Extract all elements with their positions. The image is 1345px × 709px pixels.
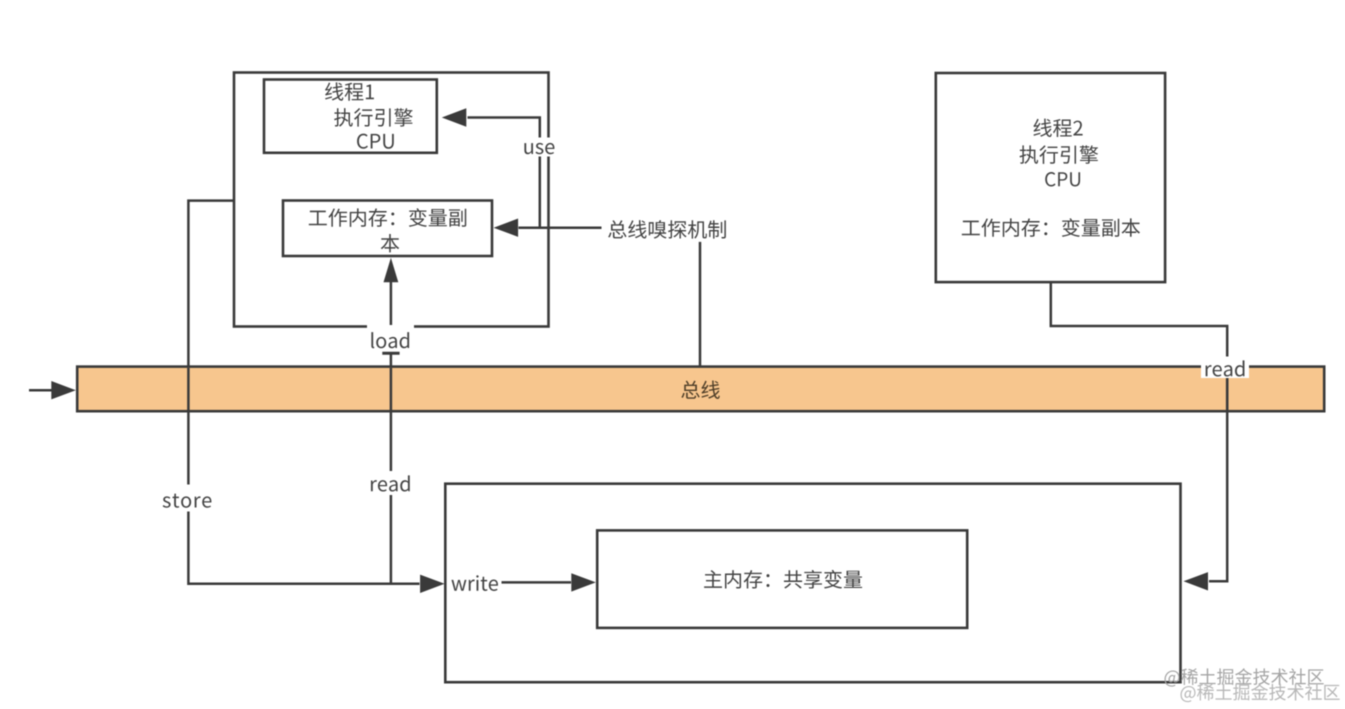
- white backing for label read right: [1201, 357, 1249, 379]
- box thread1 execution engine CPU: [264, 80, 437, 153]
- wire bus-sniffing vertical down to bus: [699, 242, 702, 367]
- wire store crossing bus: [188, 368, 1227, 410]
- bus bar (orange): [77, 367, 1324, 412]
- watermark line1: [1165, 668, 1324, 686]
- wire bus-sniffing horizontal into working memory box: [519, 226, 602, 229]
- bottom container box of main memory: [445, 484, 1180, 683]
- wire use: vertical then left into thread1 box: [468, 118, 540, 228]
- arrowhead load pointing up into working memory: [384, 258, 399, 283]
- label thread1 line3 CPU: [357, 134, 394, 149]
- box working memory (variable copy): [283, 201, 492, 257]
- label use: [524, 143, 554, 154]
- arrow into bus from left: [29, 389, 52, 392]
- arrowhead store/write into bottom box: [420, 575, 445, 593]
- label thread2 line2: [1020, 145, 1099, 164]
- wire read: thread2 down, right, down through bus, left into bottom box: [1051, 282, 1227, 581]
- wire load/read vertical through bus: [390, 281, 393, 584]
- label thread1 line1: [325, 82, 374, 100]
- label bus: [681, 381, 719, 399]
- label thread2 line3 CPU: [1045, 172, 1080, 186]
- label read left: [371, 475, 410, 491]
- box thread2: [936, 73, 1165, 282]
- label write: [451, 575, 498, 591]
- label thread2 line1: [1033, 119, 1082, 137]
- label working-memory line1: [309, 208, 466, 227]
- label thread1 line2: [334, 108, 413, 127]
- outer container box of thread1: [234, 73, 549, 327]
- wire write arrow into main memory box: [502, 581, 572, 584]
- white backing for label read left: [368, 471, 413, 495]
- wire store: from outer box left edge down and right to main memory box: [188, 201, 419, 584]
- label main-memory: [704, 570, 862, 589]
- load tail cross tick: [382, 352, 399, 355]
- label thread2 working-memory: [962, 218, 1140, 237]
- white backing for label use: [520, 138, 558, 157]
- label store: [163, 494, 212, 508]
- arrowhead bus-sniffing into working memory: [494, 219, 518, 237]
- white backing for label load: [367, 325, 414, 351]
- label working-memory line2: [381, 234, 400, 252]
- arrowhead use into thread1 box: [442, 108, 467, 126]
- label read right: [1206, 360, 1245, 376]
- box main memory shared variable: [597, 530, 967, 628]
- label load: [371, 332, 409, 348]
- label bus-sniffing: [608, 220, 726, 239]
- watermark line2: [1181, 684, 1340, 702]
- arrowhead read into bottom box right edge: [1184, 572, 1209, 590]
